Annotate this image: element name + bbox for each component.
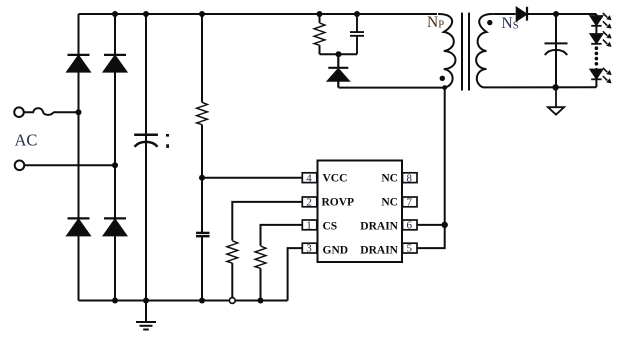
polarity marks C1 [166,134,169,148]
svg-text:GND: GND [323,244,349,256]
node output cap bottom [552,84,558,90]
diode D4 (bridge bottom-right) [104,218,126,235]
svg-text:CS: CS [323,220,338,232]
node drain junction at transformer [442,85,447,90]
pin 7 box [403,197,418,207]
svg-text:7: 7 [407,197,413,209]
wire top rail (+ bus) [79,13,438,15]
svg-text:AC: AC [15,131,38,150]
diode D1 (bridge top-left) [68,55,90,72]
pin 8 box [403,173,418,183]
wire bridge leg 2 [114,14,116,301]
resistor R2 (snubber) [319,14,321,54]
terminal AC neutral [15,161,25,171]
svg-text:1: 1 [306,220,312,232]
transformer T1 primary winding [438,14,456,88]
svg-text:5: 5 [407,243,413,255]
wire DRAIN pin 6 [417,224,445,226]
IC U1 controller body [318,161,403,263]
node live junction [76,109,82,115]
wire bottom rail (primary ground bus) [79,300,288,302]
wire startup-resistor leg [201,14,203,301]
wire GND pin 3 [288,248,303,300]
wire drain riser [444,88,446,225]
diode D5 (clamp) [328,54,348,87]
capacitor C4 (output electrolytic) [545,14,568,87]
node VCC junction [199,175,205,181]
svg-text:8: 8 [407,172,413,184]
polarity dot primary [440,76,445,81]
resistor R1 (startup) [197,102,208,124]
resistor R3 (ROVP) [231,263,233,300]
node bottom rail leg4 [199,298,205,304]
node top rail snubber R [317,11,323,17]
node top rail bulk cap [143,11,149,17]
LED D7 emission arrows [603,13,612,29]
wire secondary top [493,13,515,15]
svg-text:4: 4 [306,172,312,184]
node output cap top [553,11,559,17]
wire ROVP pin 2 [232,202,302,241]
transformer T1 secondary winding [476,14,493,87]
pin 5 box [403,243,418,253]
svg-text:DRAIN: DRAIN [360,244,398,256]
capacitor C1 bulk electrolytic [134,135,158,147]
pin 3 box [302,243,317,253]
polarity dot secondary [487,20,492,25]
svg-text:NC: NC [381,197,398,209]
pin 1 box [302,220,317,230]
capacitor C3 (snubber) [350,14,364,54]
LED D8 emission arrows [603,31,612,47]
node bottom rail R4 [258,298,264,304]
node bottom rail R3 [229,298,235,304]
node top rail startup R [199,11,205,17]
node top rail leg2 [112,11,118,17]
diode D2 (bridge top-right) [104,55,126,72]
wire bridge leg 1 [78,14,80,301]
pin 2 box [302,197,317,207]
svg-text:6: 6 [407,220,413,232]
fuse F1 [24,108,53,115]
wire AC live to bridge [53,111,78,113]
LED D9 [591,70,603,80]
node bottom rail bulk cap [143,298,149,304]
node top rail snubber C [354,11,360,17]
svg-text:3: 3 [306,243,312,255]
svg-text:2: 2 [306,197,312,209]
wire VCC pin 4 [202,177,302,179]
capacitor C2 (VCC) [196,233,210,236]
wire bulk-cap leg [145,14,147,301]
svg-text:VCC: VCC [323,173,348,185]
node snubber junction [336,51,342,57]
wire AC neutral to bridge [24,164,115,166]
node neutral junction [112,162,118,168]
node drain junction pins [442,222,448,228]
ground secondary (open triangle) [548,87,564,114]
wire secondary bottom rail [483,86,596,88]
LED D9 emission arrows [603,68,612,84]
resistor R4 (CS sense) [260,268,262,300]
wire clamp to drain node [339,87,445,89]
wire rectifier to LED bus [528,13,596,15]
diode D6 (output rectifier) [517,7,527,21]
LED D8 [591,34,603,44]
dotted continuation of LED string [595,46,599,65]
wire DRAIN pin 5 [417,225,445,248]
pin 4 box [302,173,317,183]
node bottom rail leg2 [112,298,118,304]
wire LED string [595,14,597,87]
diode D3 (bridge bottom-left) [68,218,90,235]
LED D7 [591,16,603,26]
wire snubber bottom [320,53,358,55]
transformer core [462,13,469,91]
pin 6 box [403,220,418,230]
ground primary [136,301,156,330]
wire CS pin 1 [261,225,303,246]
terminal AC live [14,107,24,117]
svg-text:NC: NC [381,173,398,185]
svg-text:DRAIN: DRAIN [360,220,398,232]
svg-text:ROVP: ROVP [322,197,355,209]
svg-text:NP: NP [427,14,444,31]
